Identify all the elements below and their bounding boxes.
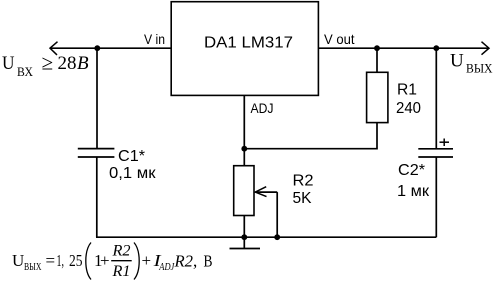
fraction bar xyxy=(111,260,132,262)
formula U_out = 1,25(1+R2/R1)+I_ADJ*R2, V xyxy=(12,243,213,281)
svg-text:ADJ: ADJ xyxy=(158,262,174,273)
svg-text:=: = xyxy=(46,251,56,270)
svg-text:DA1 LM317: DA1 LM317 xyxy=(204,35,293,52)
svg-text:25: 25 xyxy=(69,251,83,270)
svg-text:ВХ: ВХ xyxy=(17,65,33,79)
wire output (right horizontal) xyxy=(318,47,489,49)
node R2 bottom junction xyxy=(241,234,247,240)
big left paren xyxy=(86,243,91,280)
wire C2 bottom to rail xyxy=(435,157,437,237)
output arrow xyxy=(482,42,490,55)
node ADJ junction xyxy=(241,146,247,152)
svg-text:R1: R1 xyxy=(111,263,130,280)
plus sign of C2 xyxy=(440,139,450,147)
svg-text:V in: V in xyxy=(144,31,165,47)
svg-text:240: 240 xyxy=(396,100,421,117)
svg-text:R2: R2 xyxy=(293,173,314,190)
resistor R2 (potentiometer body) xyxy=(234,166,254,216)
svg-text:C1*: C1* xyxy=(118,148,145,165)
svg-text:ADJ: ADJ xyxy=(251,100,274,116)
wire left vertical (input to C1 top) xyxy=(96,48,98,148)
wiper arrow of R2 xyxy=(255,187,277,197)
svg-text:R2: R2 xyxy=(174,252,194,271)
wire bottom rail xyxy=(96,236,436,238)
svg-text:0,1 мк: 0,1 мк xyxy=(109,165,157,182)
IC DA1 LM317 body xyxy=(171,2,318,96)
resistor R1 xyxy=(367,72,388,122)
wire R1 top lead xyxy=(376,48,378,72)
big right paren xyxy=(134,243,139,280)
pin ADJ wire xyxy=(243,95,245,166)
svg-text:,: , xyxy=(193,252,197,271)
ground xyxy=(230,237,261,248)
svg-text:R2: R2 xyxy=(111,243,130,260)
svg-text:+: + xyxy=(100,251,110,270)
svg-text:C2*: C2* xyxy=(398,162,425,179)
svg-text:U: U xyxy=(450,50,464,71)
wire C2 top lead xyxy=(435,48,437,149)
node wiper junction xyxy=(274,234,280,240)
input arrow xyxy=(50,42,58,55)
svg-text:R1: R1 xyxy=(397,81,417,98)
wire ADJ to R1 bottom xyxy=(244,123,377,149)
node input junction xyxy=(94,45,100,51)
svg-text:V out: V out xyxy=(324,31,355,47)
svg-text:ВЫХ: ВЫХ xyxy=(466,61,493,76)
svg-text:28: 28 xyxy=(58,53,77,74)
capacitor C2 (polarized) xyxy=(418,149,453,157)
svg-text:U: U xyxy=(12,251,24,270)
net label U_BbIX (output) xyxy=(450,50,493,75)
wire input (left horizontal) xyxy=(50,47,171,49)
svg-text:В: В xyxy=(204,252,213,271)
net label U_BX >= 28V xyxy=(2,51,89,79)
svg-text:В: В xyxy=(77,53,89,74)
wire R2 bottom lead xyxy=(243,216,245,238)
svg-text:≥: ≥ xyxy=(42,51,54,75)
node C2 top junction xyxy=(433,45,439,51)
svg-text:5K: 5K xyxy=(293,190,312,207)
svg-text:U: U xyxy=(2,53,15,74)
wire wiper down to rail xyxy=(276,192,278,237)
svg-text:+: + xyxy=(142,251,152,270)
capacitor C1 xyxy=(78,149,115,157)
svg-text:1,: 1, xyxy=(57,251,65,270)
node R1 top junction xyxy=(374,45,380,51)
wire C1 bottom to ground rail xyxy=(96,157,98,237)
svg-text:1 мк: 1 мк xyxy=(397,183,430,200)
svg-text:ВЫХ: ВЫХ xyxy=(24,261,42,273)
